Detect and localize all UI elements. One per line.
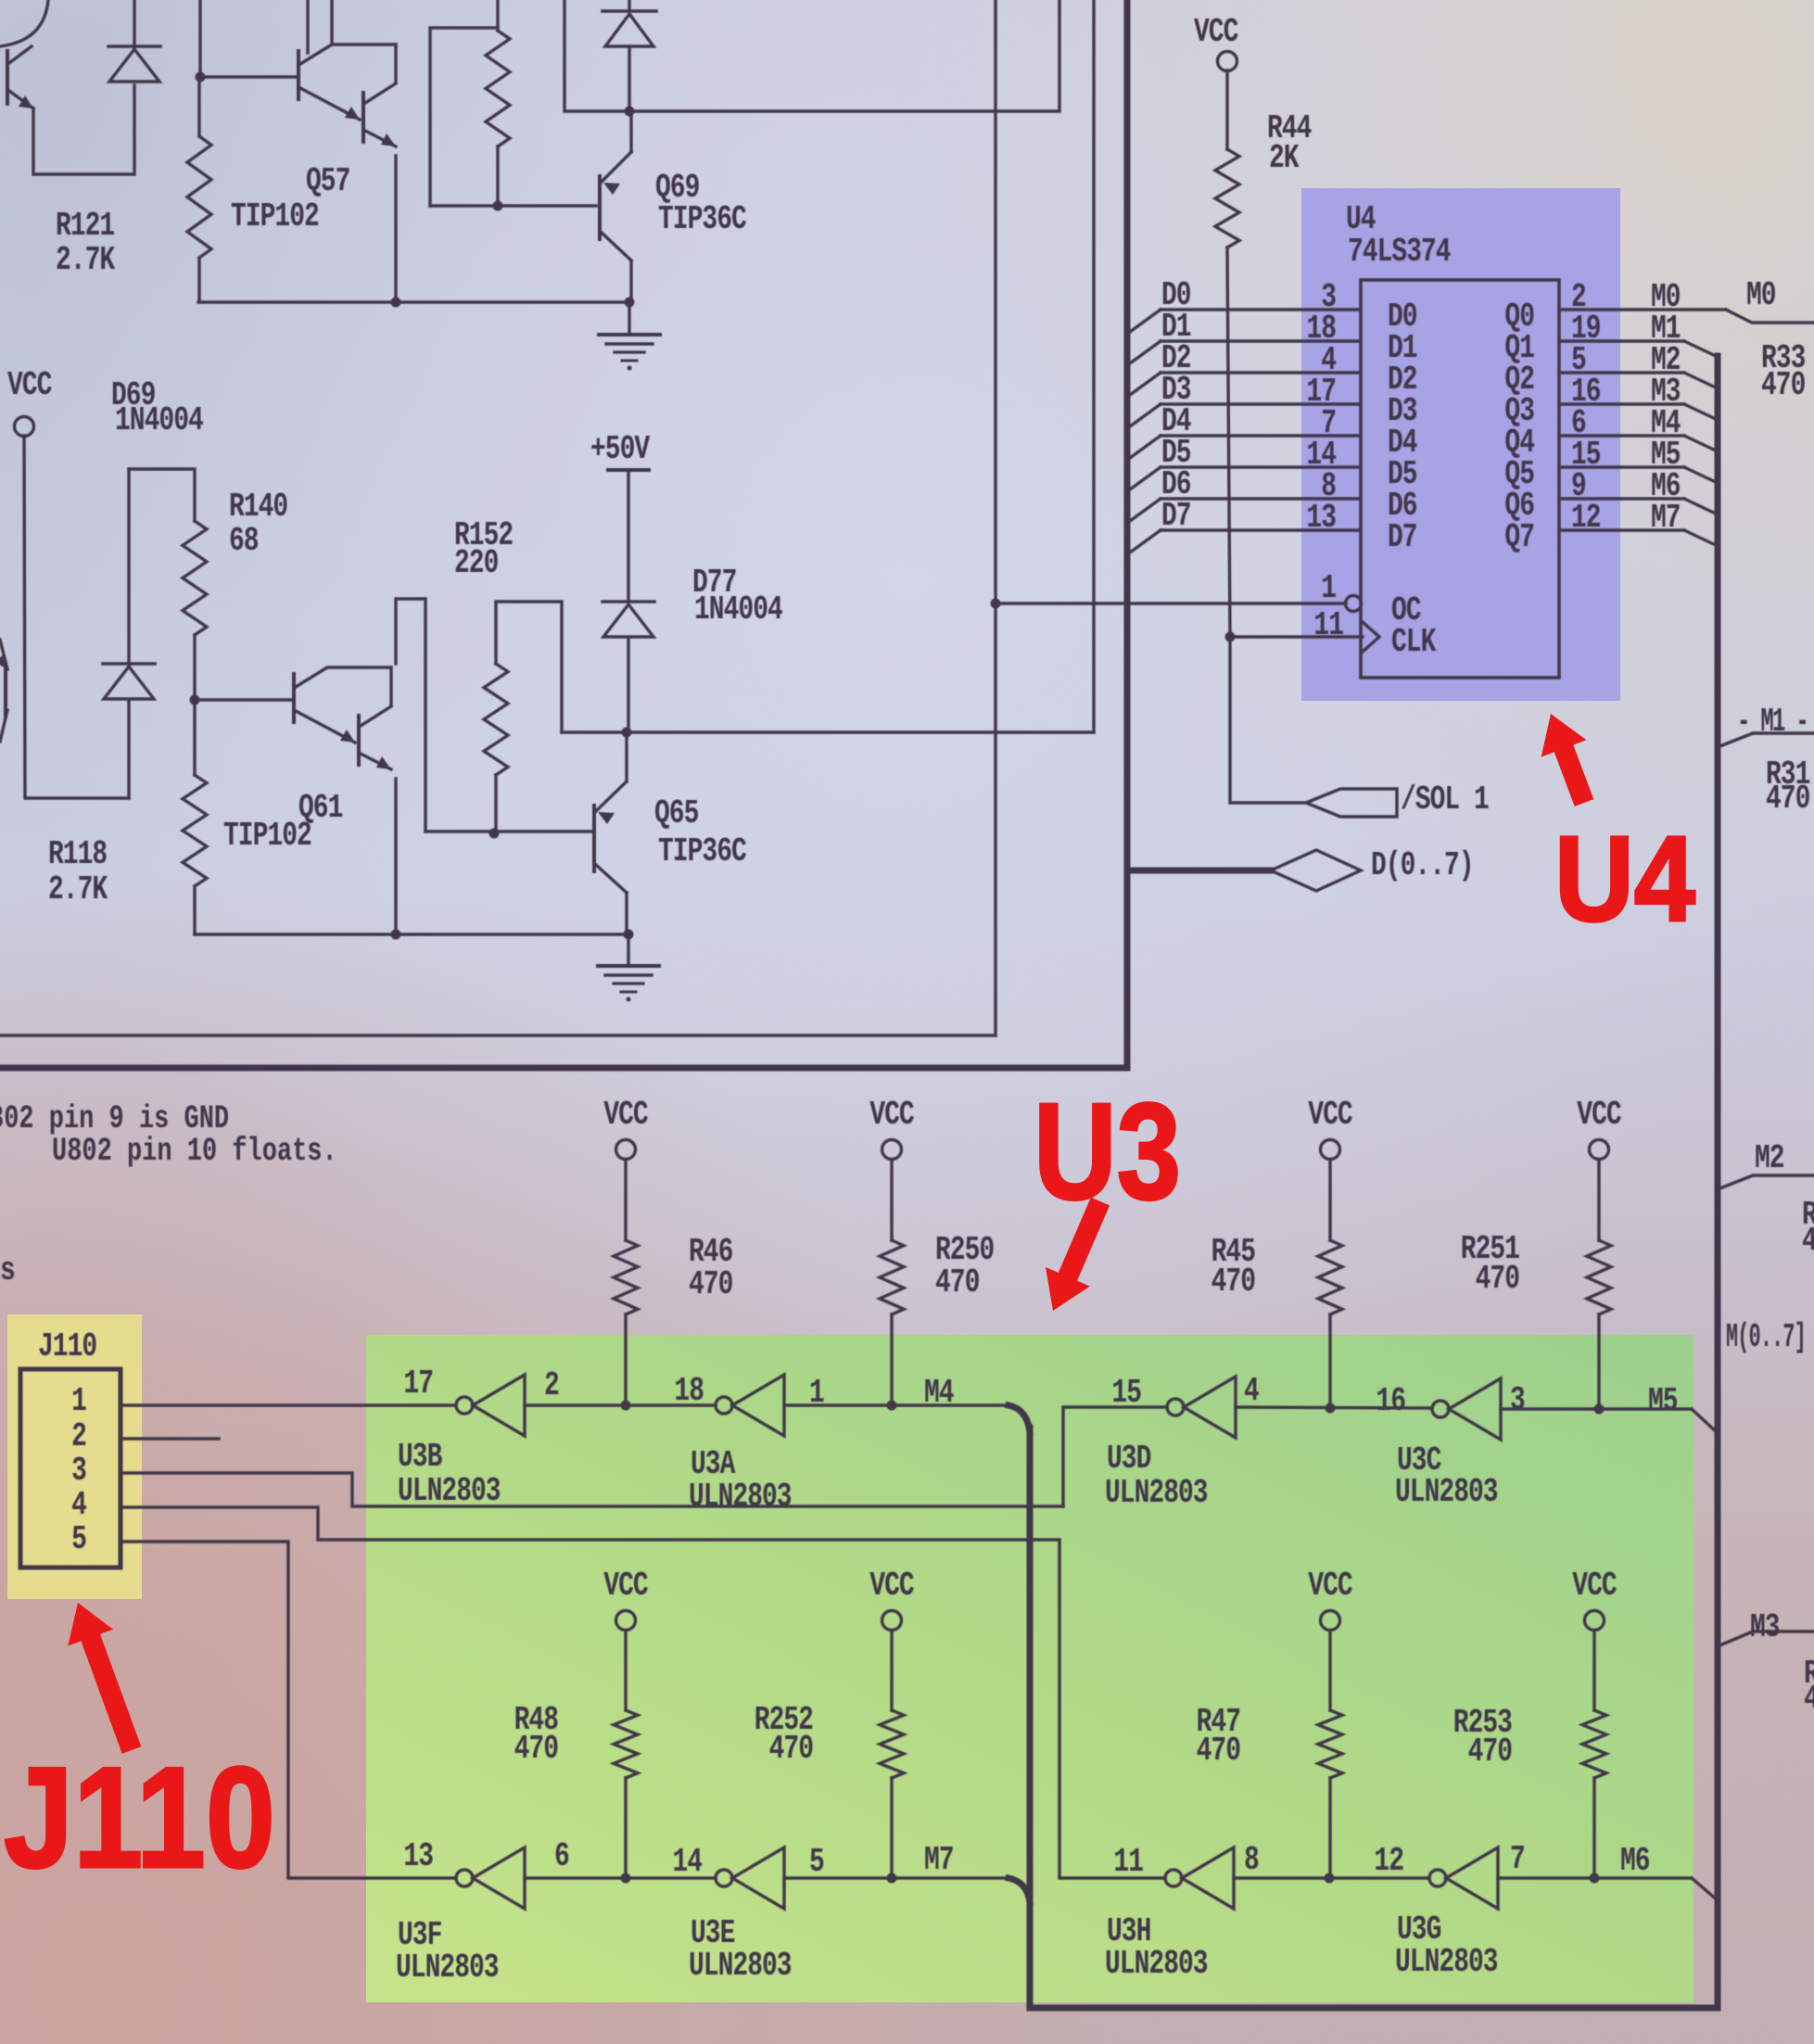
resistor R47 470: [1328, 1631, 1331, 1710]
node Q69 collector / ground rail: [625, 298, 635, 308]
wire Q57 base from top: [198, 0, 201, 77]
bus tap D6 into U4: [1130, 499, 1161, 521]
resistor R252 470: [890, 1631, 893, 1710]
resistor R44 2K: [1225, 70, 1228, 149]
wire U4 output M1: [1559, 339, 1684, 342]
wire vertical net (x=1074): [994, 0, 996, 1035]
inverter U3B ULN2803: [456, 1397, 473, 1414]
wire vertical net (x=1180): [1092, 0, 1095, 732]
resistor (2.7K pullup at Q69 base): [496, 0, 499, 31]
highlight overlay box U3: [366, 1335, 1693, 2002]
bus tap D3 into U4: [1130, 404, 1161, 426]
transistor partial (left edge, middle): [4, 664, 7, 716]
wire M6 into bus: [1692, 1878, 1718, 1900]
wire J110 pin 3 net: [121, 1473, 1063, 1506]
wire U4 output M0: [1559, 308, 1726, 311]
node R47 junction: [1325, 1873, 1335, 1884]
annotation arrow U4: [1541, 714, 1594, 806]
resistor R140 68: [183, 521, 207, 635]
wire Q57 emitter rail: [394, 156, 397, 302]
connector J110: [20, 1369, 121, 1568]
resistor R251 470: [1597, 1160, 1600, 1240]
node Q57 base junction: [196, 72, 206, 83]
node R48 junction: [621, 1873, 631, 1884]
wire Q65 base: [425, 830, 594, 832]
inverter U3G ULN2803: [1429, 1870, 1446, 1886]
transistor Q65 TIP36C: [592, 806, 596, 871]
inverter U3D ULN2803: [1167, 1399, 1184, 1416]
transistor Q57 TIP102: [297, 51, 300, 99]
node Q65 base / R152 junction: [489, 829, 500, 839]
bus tap D4 into U4: [1130, 436, 1161, 458]
bus tap D1 into U4: [1130, 341, 1161, 363]
annotation text U3: [1034, 1074, 1181, 1228]
U4 CLK pin: [1363, 622, 1379, 652]
diode D77 1N4004: [603, 600, 654, 603]
wire Q69 base loop: [430, 28, 498, 206]
wire Q57 base: [200, 75, 298, 78]
wire M1 exit to R31: [1718, 733, 1814, 747]
resistor R121 2.7K: [197, 77, 200, 136]
bus tap D2 into U4: [1130, 373, 1161, 395]
wire M5 into bus: [1692, 1409, 1718, 1433]
wire M3 exit: [1718, 1631, 1814, 1646]
inverter U3A ULN2803: [716, 1397, 732, 1414]
wire U4 output M5: [1559, 465, 1684, 468]
U4 CLK input wire: [1230, 635, 1363, 638]
wire M2 exit: [1718, 1175, 1814, 1189]
wire Q57 base-bar feed from top: [306, 0, 309, 53]
resistor R152 220: [484, 664, 508, 775]
wire section border thin: [0, 1034, 996, 1036]
resistor R250 470: [890, 1160, 893, 1240]
bus M(0..7) bottom run: [1030, 2005, 1718, 2012]
wire CLK node to /SOL 1: [1230, 637, 1306, 803]
node Q65 collector / ground: [624, 930, 634, 940]
diode (top-left): [108, 44, 160, 48]
resistor R253 470: [1592, 1631, 1595, 1710]
highlight overlay box U4: [1301, 188, 1620, 701]
wire Q61 emitter rail: [394, 779, 397, 934]
node CLK junction: [1225, 632, 1236, 642]
inverter U3H ULN2803: [1165, 1870, 1182, 1886]
annotation arrow J110: [68, 1603, 141, 1754]
node R46 junction: [621, 1401, 631, 1411]
wire Q69 base: [430, 204, 596, 207]
diode D69 1N4004: [127, 700, 130, 798]
bus D(0..7) bottom run: [0, 1065, 1127, 1072]
transistor Q61 TIP102: [292, 674, 296, 722]
inverter U3E ULN2803: [716, 1870, 732, 1886]
wire +50V to D77: [627, 470, 629, 602]
wire U3F input to U3E: [525, 1876, 716, 1879]
wire horizontal feed (y=120): [564, 0, 1059, 111]
node R253 junction (M6): [1590, 1873, 1600, 1884]
annotation arrow U3: [1046, 1198, 1110, 1311]
bus pointer D(0..7): [1129, 868, 1271, 874]
resistor R45 470: [1328, 1160, 1331, 1240]
bus M(0..7) right vertical: [1715, 356, 1721, 2008]
wire U4 output M2: [1559, 371, 1684, 374]
wire net M7: [784, 1876, 1008, 1879]
wire U4 output M7: [1559, 528, 1684, 531]
transistor Q69 TIP36C: [598, 176, 602, 239]
node Q69 emitter junction: [625, 107, 635, 117]
resistor R46 470: [624, 1160, 627, 1240]
wire J110 pin 4 net: [121, 1507, 1059, 1540]
inverter U3C ULN2803: [1432, 1401, 1449, 1417]
resistor R48 470: [624, 1631, 627, 1710]
wire U4 output M6: [1559, 497, 1684, 500]
wire VCC to D69 loop: [24, 436, 129, 798]
node R250 junction (M4): [887, 1401, 897, 1411]
chip U4 74LS374 outline: [1361, 280, 1559, 678]
inverter U3F ULN2803: [456, 1870, 473, 1886]
wire Q61 base: [195, 698, 294, 701]
node R45 junction: [1326, 1403, 1336, 1414]
wire M7 into trunk: [1008, 1878, 1030, 1902]
bus tap D5 into U4: [1130, 467, 1161, 489]
node Q69 base resistor junction: [493, 201, 503, 211]
diode above Q69: [603, 9, 656, 13]
ground (Q57/Q69 stage): [628, 302, 630, 335]
node Q57 emitter / rail: [391, 298, 401, 308]
annotation text J110: [4, 1736, 275, 1898]
wire net M6: [1498, 1876, 1692, 1879]
wire J110 pin 1 net: [121, 1403, 456, 1406]
node Q61 base junction: [190, 695, 200, 705]
wire U3H input to U3G: [1234, 1876, 1429, 1879]
bus tap D7 into U4: [1130, 530, 1161, 552]
annotation text U4: [1554, 811, 1695, 947]
U4 OC bubble and pin: [1346, 596, 1362, 612]
wire U3D output drop: [1063, 1407, 1167, 1506]
transistor partial (left edge, top): [6, 51, 9, 104]
wire U3H output drop: [1059, 1540, 1165, 1878]
wire elbow top-left corner: [0, 0, 48, 46]
wire D77 to node: [627, 638, 629, 732]
wire U4 output M4: [1559, 434, 1684, 437]
wire U3D input to U3C: [1236, 1407, 1432, 1408]
wire J110 pin 5 net: [121, 1542, 456, 1878]
node OC wire junction: [991, 599, 1001, 609]
bus D(0..7) vertical trunk: [1124, 0, 1131, 1068]
wire Q57 collector to page top: [330, 0, 333, 44]
wire net M5: [1501, 1407, 1692, 1410]
wire net M4: [784, 1403, 1008, 1406]
node Q61 emitter / rail: [391, 930, 401, 940]
pointer flag /SOL 1: [1306, 789, 1397, 817]
U4 OC input wire: [996, 602, 1346, 604]
wire bottom rail of Q61 stage: [195, 933, 628, 935]
wire J110 pin 2 stub: [121, 1437, 219, 1440]
wire diode to page top: [133, 0, 135, 46]
node R252 junction (M7): [887, 1873, 897, 1884]
highlight overlay box J110: [7, 1314, 142, 1599]
wire R152 top loop: [496, 602, 562, 732]
node D77 / Q65 emitter junction: [622, 728, 632, 738]
resistor R118 2.7K: [193, 700, 196, 775]
wire transistor emitter to diode: [33, 85, 134, 174]
wire Q61 collector up-over: [396, 599, 425, 832]
wire D69 to R140: [129, 469, 195, 521]
wire U3B input to U3A: [525, 1403, 716, 1406]
node R251 junction (M5): [1594, 1404, 1605, 1415]
wire node to register line (y=790): [562, 730, 1094, 733]
wire M4 into trunk: [1008, 1405, 1030, 1432]
wire bottom rail of Q57 stage: [198, 300, 630, 303]
bus M(0..7) lower trunk: [1027, 1428, 1034, 2008]
ground (Q61/Q65 stage): [627, 934, 629, 966]
wire U4 output M3: [1559, 402, 1684, 405]
bus tap D0 into U4: [1130, 310, 1161, 332]
